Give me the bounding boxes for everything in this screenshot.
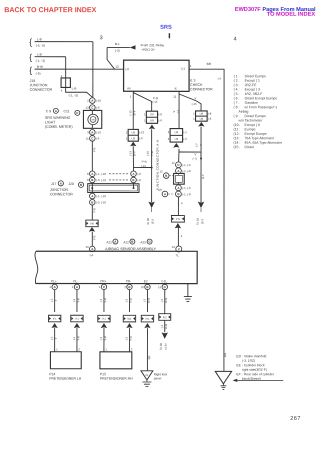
svg-text:(-15: (-15 (152, 100, 157, 104)
svg-text:(-1, (-10: (-1, (-10 (96, 194, 106, 198)
svg-text:20: 20 (141, 285, 144, 289)
bus bar box (88, 184, 139, 193)
svg-text:{: { (29, 37, 32, 47)
junction box U9 (B) (193, 111, 212, 121)
wire BR from pin E1 (189, 69, 224, 371)
wire P-B diagonal from pin 1 (133, 93, 151, 112)
ground triangle IG right kick panel (141, 371, 153, 380)
svg-text:G1L: G1L (161, 279, 167, 283)
svg-text:(-1: (-1 (183, 130, 187, 134)
wire Y-G to IH5 (91, 205, 93, 220)
svg-text:13: 13 (86, 106, 90, 110)
svg-text:U9: U9 (175, 130, 179, 134)
svg-text:13: 13 (85, 245, 89, 249)
svg-text:{: { (29, 65, 32, 75)
connector A right of dashes (131, 171, 137, 177)
connector circle c1 (176, 162, 182, 168)
svg-text:(5-3: (5-3 (151, 219, 155, 224)
svg-text:1RZ, 3RZ-F: 1RZ, 3RZ-F (245, 92, 263, 96)
wire V from tc pin 11 (178, 91, 180, 128)
svg-text:PR+: PR+ (100, 279, 106, 283)
to-page arrow (V right) (198, 202, 204, 209)
svg-text:U9: U9 (150, 118, 154, 122)
svg-text:B-Y: B-Y (201, 174, 205, 179)
pretensioner LH box (50, 352, 81, 369)
svg-text:JUNCTION CONNECTOR A-A: JUNCTION CONNECTOR A-A (156, 139, 160, 191)
svg-text:panel: panel (154, 376, 162, 380)
svg-text:(-1, (-8: (-1, (-8 (182, 169, 191, 173)
svg-text:B-Y: B-Y (133, 151, 137, 156)
svg-text:W-B: W-B (147, 298, 151, 304)
svg-text:BACK TO CHAPTER INDEX: BACK TO CHAPTER INDEX (4, 6, 96, 14)
section marker I (169, 33, 170, 38)
svg-text:Y: Y (54, 337, 58, 339)
svg-text:LA: LA (90, 253, 94, 257)
svg-text:10: 10 (158, 188, 162, 192)
svg-text:AB: AB (91, 119, 95, 122)
svg-text:(-6: (-6 (183, 137, 187, 141)
svg-text:L-B: L-B (37, 37, 42, 41)
arrow below IB1 x=129.5 (126, 323, 132, 328)
svg-text:Y-G: Y-G (129, 336, 133, 341)
svg-text:IF1: IF1 (53, 317, 57, 321)
wire to connector IH1 (177, 197, 179, 215)
svg-text:J18: J18 (30, 79, 36, 83)
svg-text:(-1, -3): (-1, -3) (36, 59, 45, 63)
squib wire column x=77.0 (76, 290, 78, 312)
svg-text:IG: IG (146, 373, 149, 377)
svg-text:V: V (199, 144, 203, 146)
junction box U9 (C) (126, 129, 145, 141)
svg-text:U9: U9 (132, 136, 136, 140)
svg-text:(-6: (-6 (158, 118, 162, 122)
noise filter box (174, 173, 185, 184)
arrow below IF1 x=77.0 (74, 323, 80, 328)
svg-text:(-1, (-6: (-1, (-6 (182, 186, 191, 190)
connector IH5 (86, 220, 98, 227)
svg-text:E1: E1 (181, 67, 185, 71)
wire V down to junction circles (178, 149, 180, 162)
connector 8 B below bus (90, 199, 96, 205)
svg-text:(-1, (-10: (-1, (-10 (96, 172, 106, 176)
ground triangle ED/EE/EF (215, 371, 231, 384)
svg-text:A5: A5 (127, 86, 131, 90)
svg-text:SRS: SRS (160, 25, 172, 31)
svg-text:SRS WARNING: SRS WARNING (45, 116, 71, 120)
svg-text:PRETENSIONER LH: PRETENSIONER LH (49, 377, 82, 381)
svg-text:Except ( 3: Except ( 3 (245, 88, 260, 92)
svg-text:W-B: W-B (164, 324, 168, 330)
svg-text:V: V (194, 96, 196, 100)
arrow below box A (149, 124, 155, 129)
svg-text:(-3, (-10: (-3, (-10 (96, 178, 106, 182)
arrow below IH1 E2 (144, 323, 150, 328)
arrow into IH1 (175, 223, 181, 228)
connector 13 A on assembly (89, 246, 95, 252)
wire Y-G down from meter (91, 141, 93, 171)
to-page arrow (P-B) (148, 202, 154, 209)
small ground below (222, 384, 224, 386)
svg-text:(-6: (-6 (139, 136, 143, 140)
svg-text:(-3, (-10: (-3, (-10 (96, 200, 106, 204)
svg-text:W-B: W-B (164, 298, 168, 304)
svg-text:Diesel Except Europe: Diesel Except Europe (245, 96, 278, 100)
svg-text:To 28: To 28 (146, 218, 150, 225)
svg-text:A21: A21 (106, 240, 112, 244)
svg-text:U9: U9 (200, 117, 204, 121)
wire to airbag sensor LA (91, 232, 93, 247)
svg-text:( 5 :: ( 5 : (234, 92, 240, 96)
ground stub from assembly (187, 284, 189, 297)
svg-text:2RZ-FE: 2RZ-FE (245, 83, 258, 87)
svg-text:LIGHT: LIGHT (45, 120, 56, 124)
svg-text:Rear side of cylinder: Rear side of cylinder (244, 372, 275, 376)
svg-text:CHECK: CHECK (190, 83, 203, 87)
svg-text:IF1: IF1 (75, 317, 79, 321)
wire L-B (second) (35, 56, 66, 58)
svg-text:(-15: (-15 (141, 164, 146, 168)
connector circle c3 (176, 185, 182, 191)
svg-text:IH1: IH1 (145, 317, 150, 321)
svg-text:P-B: P-B (142, 160, 147, 164)
svg-text:(-10: (-10 (96, 130, 101, 134)
svg-text:12: 12 (115, 65, 119, 69)
svg-text:(-3, 1RZ): (-3, 1RZ) (242, 359, 255, 363)
svg-text:( 8 :: ( 8 : (234, 105, 240, 109)
svg-text:Y-G: Y-G (129, 298, 133, 303)
svg-text:A23: A23 (140, 240, 146, 244)
svg-text:TL: TL (175, 253, 179, 257)
svg-text:70A Type Alternator: 70A Type Alternator (245, 136, 275, 140)
svg-text:EB: EB (147, 355, 151, 359)
svg-text:4: 4 (234, 37, 237, 43)
connector pin 13 C (90, 105, 96, 111)
connector circle c4 (176, 191, 182, 197)
svg-text:EF :: EF : (236, 372, 242, 376)
svg-text:267: 267 (290, 416, 301, 422)
svg-text:Except ( 9: Except ( 9 (245, 123, 260, 127)
arrow below box D (173, 143, 179, 148)
svg-text:J20: J20 (68, 182, 74, 186)
branch to P-B column (133, 166, 151, 168)
svg-text:11: 11 (86, 136, 89, 140)
svg-text:(11 :: (11 : (234, 127, 241, 131)
svg-text:(-5, -6): (-5, -6) (36, 44, 45, 48)
svg-text:{: { (29, 52, 32, 62)
svg-text:right side(3RZ-F): right side(3RZ-F) (242, 368, 267, 372)
svg-text:To 2E: To 2E (159, 343, 163, 350)
svg-text:BR: BR (207, 62, 212, 66)
svg-text:<NS1-3>: <NS1-3> (142, 48, 155, 52)
svg-text:3: 3 (100, 35, 103, 41)
svg-text:(COMB. METER): (COMB. METER) (45, 125, 73, 129)
svg-text:(-1, (-8: (-1, (-8 (182, 192, 191, 196)
svg-text:(-8: (-8 (208, 112, 212, 116)
svg-text:Y-B: Y-B (76, 336, 80, 341)
svg-text:PL+: PL+ (51, 279, 57, 283)
pretensioner RH box (100, 352, 132, 369)
svg-text:( 1 :: ( 1 : (234, 74, 240, 78)
svg-text:Y-G: Y-G (92, 208, 96, 213)
combination meter box (83, 110, 101, 128)
svg-text:(14 :: (14 : (234, 141, 241, 145)
svg-text:45A, 55A Type Alternator: 45A, 55A Type Alternator (245, 141, 283, 145)
connector pin 2 A (90, 98, 96, 104)
svg-text:U9: U9 (200, 112, 204, 116)
connector IH1 E2 (141, 315, 153, 322)
svg-text:( 7 :: ( 7 : (234, 101, 240, 105)
arrow below box B (198, 122, 204, 127)
arrow below IF1 x=104.0 (101, 323, 107, 328)
connector 19 V on assembly (176, 246, 182, 252)
svg-text:<J 9>: <J 9> (164, 343, 168, 351)
svg-text:(12 :: (12 : (234, 132, 241, 136)
svg-text:12: 12 (160, 169, 164, 173)
squib wire column x=129.5 (128, 290, 130, 312)
svg-text:Gasoline: Gasoline (245, 101, 258, 105)
connector 8 B (90, 177, 96, 183)
breakaway connector B (163, 173, 169, 179)
connector B right of dashes (131, 177, 137, 183)
svg-text:ED :: ED : (236, 354, 242, 358)
svg-text:(5-3: (5-3 (200, 219, 204, 224)
svg-text:w/o Tachometer: w/o Tachometer (239, 119, 264, 123)
airbag sensor assembly box (36, 251, 198, 283)
svg-text:V: V (178, 247, 180, 251)
dashed pairing lines (109, 173, 129, 175)
svg-text:P15: P15 (100, 372, 106, 376)
wire to assembly TL (177, 227, 179, 246)
warning light bulb (88, 114, 98, 124)
svg-text:Cylinder block: Cylinder block (244, 363, 265, 367)
svg-text:Y-B: Y-B (76, 298, 80, 303)
svg-text:PRETENSIONER RH: PRETENSIONER RH (100, 377, 133, 381)
svg-text:(13 :: (13 : (234, 136, 241, 140)
svg-text:(-8: (-8 (137, 178, 141, 182)
svg-text:Y-R: Y-R (103, 298, 107, 303)
svg-text:Diesel Europe: Diesel Europe (245, 114, 266, 118)
branch over to right column (179, 152, 201, 159)
svg-text:(-1: (-1 (176, 109, 180, 113)
squib wire column x=104.0 (103, 290, 105, 312)
svg-text:AIRBAG SENSOR ASSEMBLY: AIRBAG SENSOR ASSEMBLY (105, 247, 156, 251)
svg-text:PL-: PL- (73, 279, 78, 283)
svg-text:PR-: PR- (126, 279, 131, 283)
to-page arrow (G1L) (162, 332, 168, 339)
connector IB1 at x=129.5 (123, 315, 135, 322)
wire segment to pin 12 (107, 47, 115, 69)
svg-text:11: 11 (173, 95, 176, 99)
svg-text:Y-R: Y-R (103, 336, 107, 341)
svg-text:(15 :: (15 : (234, 145, 241, 149)
svg-text:U9: U9 (150, 112, 154, 116)
svg-text:IE1: IE1 (163, 315, 167, 319)
svg-text:(-6: (-6 (208, 117, 212, 121)
svg-text:Except ( 1: Except ( 1 (245, 79, 260, 83)
svg-text:JUNCTION: JUNCTION (30, 83, 48, 87)
svg-text:Y: Y (54, 299, 58, 301)
svg-text:C 9: C 9 (46, 109, 51, 113)
svg-text:Except Europe: Except Europe (245, 132, 267, 136)
svg-text:(-1, (-6: (-1, (-6 (182, 163, 191, 167)
svg-text:Intake manifold: Intake manifold (244, 354, 267, 358)
svg-text:Diesel: Diesel (245, 145, 255, 149)
svg-text:IH5: IH5 (90, 221, 95, 225)
svg-text:(-9: (-9 (96, 136, 100, 140)
svg-text:C11: C11 (64, 109, 70, 113)
svg-text:(-4: (-4 (218, 77, 222, 81)
svg-text:(-13: (-13 (139, 130, 144, 134)
connector IF1 at x=104.0 (98, 315, 110, 322)
svg-text:(10 :: (10 : (234, 123, 241, 127)
svg-text:( 4 :: ( 4 : (234, 88, 240, 92)
pointer from ground notes (233, 379, 238, 382)
svg-text:(-15: (-15 (192, 102, 197, 106)
svg-text:E 3: E 3 (190, 79, 195, 83)
connector IE1 (159, 314, 171, 321)
wire B-W (35, 68, 124, 70)
wire V right branch down (200, 127, 202, 202)
arrow below IF1 x=54.7 (51, 323, 57, 328)
connector circle c2 (176, 168, 182, 174)
svg-text:12: 12 (172, 161, 176, 165)
G1L wire (164, 290, 166, 314)
svg-text:EE :: EE : (236, 363, 242, 367)
E2 ground wire (146, 290, 148, 312)
svg-text:JUNCTION: JUNCTION (50, 188, 69, 192)
connector IF1 at x=54.7 (48, 315, 60, 322)
squib wire column x=54.7 (54, 290, 56, 312)
wire B-Y from A5 pin 1 (132, 91, 134, 129)
ground symbol below triangle (146, 380, 148, 382)
svg-text:(-8: (-8 (125, 67, 129, 71)
svg-text:Airbag: Airbag (239, 110, 249, 114)
svg-text:CONNECTOR: CONNECTOR (190, 87, 213, 91)
connector 8 A (90, 171, 96, 177)
connector IH1 mid (171, 216, 184, 223)
svg-text:IB1: IB1 (127, 317, 131, 321)
svg-text:( 9 :: ( 9 : (234, 114, 240, 118)
breakaway connector A (162, 191, 168, 197)
check connector E3 box (124, 60, 190, 91)
junction box U9 (D) (168, 129, 188, 143)
svg-text:(-3): (-3) (115, 49, 120, 53)
wire from relay (B-L) (107, 46, 130, 48)
svg-text:U9: U9 (175, 137, 179, 141)
connector pin 3 A (90, 129, 96, 135)
connector IF1 at x=77.0 (71, 315, 83, 322)
svg-text:P-B: P-B (150, 151, 154, 156)
svg-text:Y-G: Y-G (92, 236, 96, 241)
svg-text:J17: J17 (51, 182, 57, 186)
svg-text:B-L: B-L (115, 42, 120, 46)
svg-text:B-Y: B-Y (133, 111, 137, 116)
connector pin 11 C (90, 136, 96, 142)
svg-text:(-8: (-8 (158, 112, 162, 116)
svg-text:19: 19 (172, 245, 176, 249)
svg-text:P14: P14 (49, 372, 55, 376)
svg-text:block(Diesel): block(Diesel) (242, 377, 261, 381)
svg-text:(-7): (-7) (193, 157, 197, 161)
svg-text:CONNECTOR: CONNECTOR (30, 88, 53, 92)
svg-text:Europe: Europe (245, 127, 256, 131)
arrow below box C (130, 142, 136, 147)
wire P-B down (151, 129, 153, 202)
svg-text:Diesel Europe: Diesel Europe (245, 74, 266, 78)
svg-text:(-1, -3): (-1, -3) (69, 93, 78, 97)
svg-text:TO MODEL INDEX: TO MODEL INDEX (267, 12, 316, 18)
J18 box (61, 78, 70, 88)
svg-text:( 6 :: ( 6 : (234, 96, 240, 100)
svg-text:U9: U9 (132, 130, 136, 134)
connector 8 A below bus (90, 193, 96, 199)
svg-text:B-W: B-W (37, 65, 43, 69)
wire L-B through J18 (66, 57, 93, 97)
svg-text:L-B: L-B (37, 52, 42, 56)
wire below IE1 (164, 320, 166, 332)
wire down to bus circles (132, 146, 134, 171)
arrow into IH5 (89, 227, 95, 232)
svg-text:IF1: IF1 (102, 317, 106, 321)
svg-text:( 2 :: ( 2 : (234, 79, 240, 83)
svg-text:E2: E2 (144, 279, 148, 283)
svg-text:( 3 :: ( 3 : (234, 83, 240, 87)
svg-text:To 28: To 28 (196, 218, 200, 225)
junction box U9 (A) (144, 111, 162, 123)
svg-text:CONNECTOR: CONNECTOR (50, 192, 74, 196)
wire vertical from L-B top (92, 42, 94, 98)
svg-text:(-9: (-9 (96, 106, 100, 110)
wire L-B (top) (35, 41, 93, 43)
svg-text:Y-G: Y-G (92, 148, 96, 153)
diagonal branch to box B (179, 94, 201, 111)
svg-text:IH1: IH1 (176, 217, 181, 221)
svg-text:w/ From Passenger' s: w/ From Passenger' s (245, 105, 278, 109)
svg-text:(-10: (-10 (96, 99, 101, 103)
svg-text:(-6): (-6) (36, 72, 41, 76)
svg-text:A22: A22 (123, 240, 129, 244)
svg-text:L-B: L-B (72, 87, 77, 91)
svg-text:(-8: (-8 (137, 172, 141, 176)
svg-text:12: 12 (158, 285, 161, 289)
